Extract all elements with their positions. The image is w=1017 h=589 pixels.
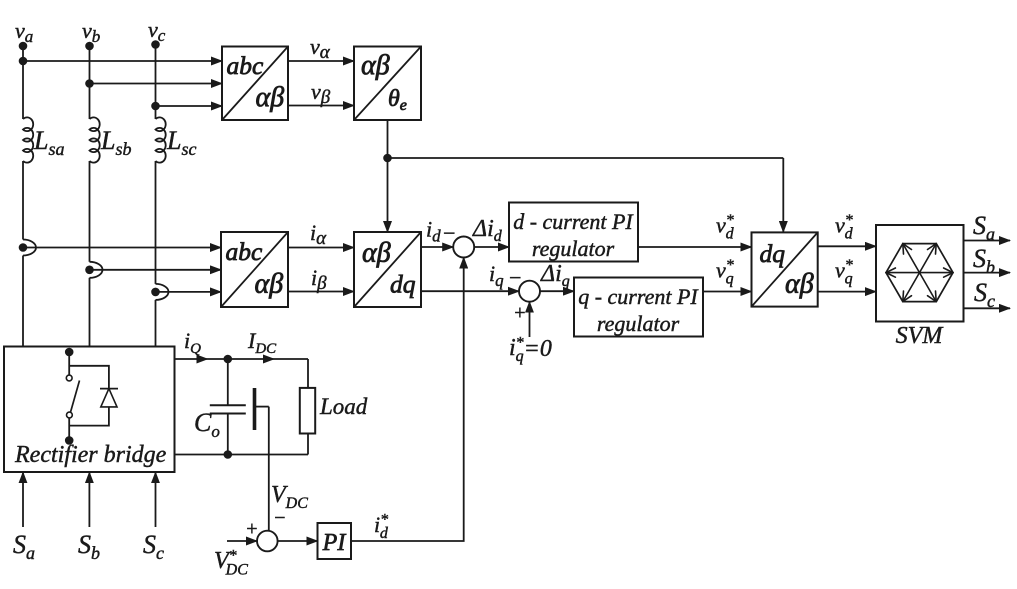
wire ib to abc block: [90, 269, 222, 271]
wire vb to abc block: [90, 83, 223, 85]
svg-text:Sb: Sb: [973, 244, 995, 277]
svg-text:vb: vb: [82, 18, 100, 46]
wire v-beta: [288, 79, 354, 108]
svg-text:v*d: v*d: [835, 212, 854, 243]
summing junction S3 (DC voltage): [257, 531, 278, 552]
wire iq from alphabeta/dq to summing node: [421, 261, 522, 291]
svg-text:+: +: [245, 518, 259, 540]
wire id from alphabeta/dq to summing node: [421, 217, 456, 248]
wire Sb output: [964, 244, 1011, 277]
wire diode branch bottom: [69, 407, 109, 426]
wire va to abc block: [23, 60, 222, 62]
svg-text:PI: PI: [322, 530, 347, 556]
wire VDC down to summing node: [269, 407, 308, 531]
svg-text:Sc: Sc: [143, 530, 164, 563]
svg-text:αβ: αβ: [255, 269, 284, 300]
svg-text:Sc: Sc: [974, 278, 995, 311]
svg-text:id−: id−: [426, 217, 456, 246]
wire vq* to SVM: [818, 257, 876, 292]
inductor Lsa: [23, 117, 64, 162]
svg-text:Lsc: Lsc: [166, 126, 196, 159]
wire vd* to SVM: [818, 212, 876, 246]
node junction vb tap: [85, 79, 94, 88]
svg-text:Lsa: Lsa: [33, 126, 64, 159]
wire Sb gate arrow: [78, 472, 100, 563]
wire i-alpha: [288, 220, 354, 249]
current sensor phase b: [85, 262, 102, 278]
SVM vector arrows: [886, 244, 953, 302]
svg-text:Load: Load: [319, 394, 368, 419]
wire DC negative rail: [175, 454, 309, 456]
svg-text:iQ: iQ: [184, 328, 201, 357]
summing junction S2 (q axis): [519, 281, 540, 302]
wire theta-e down to dq/alphabeta: [782, 158, 784, 232]
block U3 abc/alphabeta current transform: [221, 232, 288, 307]
node va terminal: [15, 18, 33, 50]
svg-text:d - current PI: d - current PI: [513, 209, 634, 234]
svg-text:αβ: αβ: [256, 82, 285, 113]
svg-text:v*q: v*q: [716, 257, 734, 288]
diode D1: [100, 389, 118, 407]
svg-text:dq: dq: [390, 270, 416, 299]
svg-text:i*d: i*d: [374, 512, 389, 543]
svg-text:abc: abc: [227, 51, 265, 80]
svg-text:i*q=0: i*q=0: [509, 335, 552, 366]
wire id* feedback from PI to S1: [351, 258, 464, 543]
voltage sensor bar VDC tap: [255, 388, 269, 430]
svg-text:αβ: αβ: [362, 238, 391, 269]
wire ia to abc block: [23, 247, 221, 249]
wire vq* from q regulator to dq/alphabeta: [703, 257, 752, 292]
block U1 abc/alphabeta voltage transform: [222, 47, 288, 121]
svg-text:vβ: vβ: [311, 79, 331, 108]
svg-text:v*q: v*q: [835, 257, 853, 288]
wire i-beta: [288, 265, 354, 294]
wire Sa output: [964, 211, 1011, 244]
svg-text:IDC: IDC: [247, 328, 277, 357]
wire diode branch top: [69, 366, 109, 389]
svg-text:iα: iα: [310, 220, 327, 249]
svg-text:Sb: Sb: [78, 530, 100, 563]
svg-text:Rectifier bridge: Rectifier bridge: [14, 442, 167, 468]
switch Q1 upper node: [65, 348, 74, 357]
node junction vc tap: [151, 102, 160, 111]
wire switch bottom stub: [68, 418, 70, 440]
wire theta-e down from PLL: [387, 120, 389, 158]
wire IDC arrow on rail: [247, 328, 277, 364]
node vb terminal: [82, 18, 100, 50]
wire DC positive rail with iQ arrow: [175, 328, 309, 364]
svg-text:αβ: αβ: [785, 269, 814, 300]
wire iq* reference into S2: [509, 302, 552, 365]
wire phase c vertical: [155, 45, 157, 120]
node junction capacitor top: [224, 355, 233, 364]
svg-text:Δid: Δid: [472, 216, 503, 245]
svg-text:SVM: SVM: [896, 323, 945, 349]
block U4 alphabeta/dq transform: [354, 232, 421, 307]
wire ic to abc block: [156, 291, 222, 293]
svg-text:v*d: v*d: [716, 212, 735, 243]
svg-text:abc: abc: [226, 237, 264, 266]
wire vd* from d regulator to dq/alphabeta: [638, 212, 752, 247]
svg-text:+: +: [513, 302, 527, 324]
wire Sc output: [964, 278, 1011, 311]
inductor Lsc: [156, 117, 197, 162]
node junction theta-e: [383, 154, 392, 163]
svg-text:vc: vc: [148, 17, 166, 45]
current sensor phase c: [151, 284, 168, 300]
wire phase b vertical: [89, 46, 91, 119]
wire Sc gate arrow: [143, 472, 164, 563]
wire Sa gate arrow: [13, 472, 35, 563]
svg-text:regulator: regulator: [597, 311, 680, 336]
block SVM modulator: [876, 225, 964, 349]
wire delta-id to d regulator: [472, 216, 509, 247]
switch Q1: [66, 375, 79, 418]
svg-text:Sa: Sa: [973, 211, 995, 244]
SVM hexagon: [886, 244, 953, 302]
block q-current PI regulator: [574, 278, 703, 337]
svg-text:dq: dq: [760, 239, 786, 268]
wire theta-e across to dq/alphabeta: [388, 157, 784, 159]
block U2 alphabeta/theta PLL: [354, 47, 421, 121]
wire delta-iq to q regulator: [540, 261, 574, 291]
svg-text:regulator: regulator: [532, 236, 615, 261]
inductor Lsb: [90, 117, 132, 162]
summing junction S1 (d axis): [453, 237, 474, 258]
svg-text:iβ: iβ: [311, 265, 327, 294]
node junction capacitor bottom: [224, 450, 233, 459]
capacitor Co: [194, 359, 246, 455]
resistor load: [300, 359, 368, 455]
svg-text:iq−: iq−: [489, 261, 522, 290]
wire phase a vertical: [22, 46, 24, 119]
block d-current PI regulator: [509, 203, 638, 262]
wire S3 to PI: [278, 540, 318, 542]
svg-text:−: −: [273, 507, 287, 529]
block PI regulator: [318, 523, 352, 559]
block rectifier bridge: [4, 347, 175, 473]
svg-text:q - current PI: q - current PI: [578, 284, 699, 309]
wire vc to abc block: [156, 105, 223, 107]
current sensor phase a: [19, 240, 36, 256]
node vc terminal: [148, 17, 166, 49]
block U5 dq/alphabeta transform: [752, 232, 818, 306]
wire theta-e to alphabeta/dq: [387, 158, 389, 232]
svg-text:V*DC: V*DC: [214, 548, 248, 579]
svg-text:αβ: αβ: [361, 50, 390, 81]
wire v-alpha: [288, 34, 354, 63]
svg-text:Lsb: Lsb: [100, 126, 131, 159]
svg-text:Δiq: Δiq: [540, 261, 570, 290]
wire VDC* reference into S3: [214, 518, 259, 579]
wire switch top stub: [68, 352, 70, 375]
svg-text:Sa: Sa: [13, 530, 35, 563]
svg-text:va: va: [15, 18, 33, 46]
svg-text:vα: vα: [310, 34, 331, 63]
node junction va tap: [19, 57, 28, 66]
switch Q1 lower node: [65, 436, 74, 445]
